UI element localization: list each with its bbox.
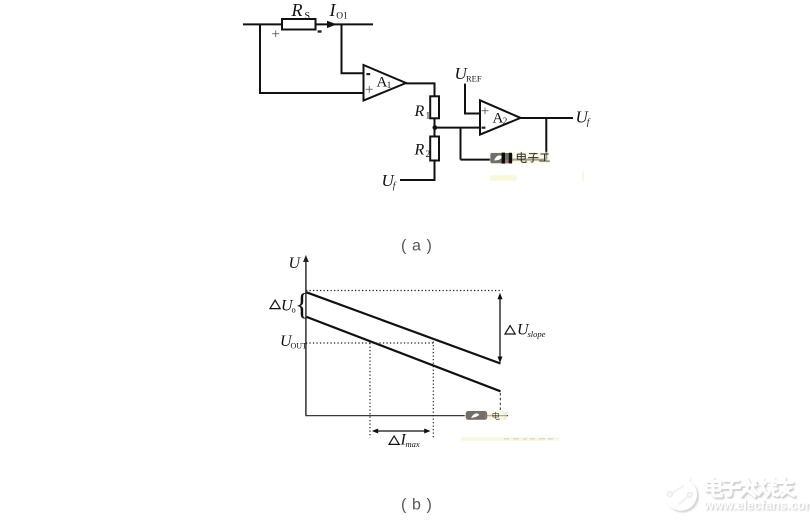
wire: A1 output to R1 top bbox=[406, 83, 435, 96]
label UREF bbox=[455, 64, 482, 84]
brand hanzi white bbox=[706, 478, 794, 496]
label - polarity bbox=[318, 30, 322, 32]
wire: feedback up to inverting input wire bbox=[460, 128, 462, 160]
logo badge dark bbox=[466, 411, 487, 420]
svg-text:2: 2 bbox=[503, 116, 508, 126]
svg-text:I: I bbox=[329, 0, 337, 20]
svg-text:U: U bbox=[289, 255, 302, 272]
arrow dImax horizontal double bbox=[375, 430, 428, 432]
ghost dashes bbox=[504, 438, 553, 440]
svg-text:R: R bbox=[414, 103, 425, 120]
wire: node to A2 inverting input bbox=[435, 127, 481, 129]
svg-text:1: 1 bbox=[387, 80, 392, 90]
badge swoosh white bbox=[471, 413, 479, 418]
label A1 bbox=[377, 75, 392, 91]
op-amp A2 triangle bbox=[480, 100, 521, 134]
label A2 bbox=[493, 111, 508, 127]
label R1 bbox=[414, 103, 431, 122]
svg-text:S: S bbox=[305, 11, 311, 22]
wire: vertical after arrow down to A1 - input bbox=[342, 24, 364, 73]
text zi ghost bbox=[502, 413, 509, 419]
svg-text:REF: REF bbox=[466, 74, 482, 84]
label RS bbox=[291, 0, 311, 22]
label IO1 bbox=[329, 0, 349, 22]
line lower bbox=[307, 317, 501, 391]
dotted top reference bbox=[306, 290, 503, 292]
logo badge dark bbox=[490, 153, 512, 163]
resistor RS body bbox=[282, 19, 316, 30]
text dian dark bbox=[493, 412, 499, 419]
label UOUT bbox=[280, 333, 307, 351]
badge bar2 black bbox=[509, 153, 512, 164]
cream highlight box bbox=[490, 152, 550, 164]
svg-text:R: R bbox=[291, 0, 303, 20]
badge red accent bbox=[505, 160, 508, 163]
resistor R1 body bbox=[430, 96, 439, 118]
label dUslope bbox=[505, 322, 546, 340]
logo leaf shadow bbox=[683, 470, 690, 484]
dotted vertical left bbox=[369, 343, 371, 438]
svg-text:+: + bbox=[481, 104, 489, 120]
node junction dot bbox=[433, 125, 438, 130]
logo disc bbox=[665, 478, 697, 510]
dashed vertical at line end bbox=[499, 393, 501, 411]
logo disc shadow bbox=[667, 480, 699, 512]
wire: feedback from output down bbox=[545, 118, 547, 160]
badge glyph white bbox=[494, 155, 502, 160]
wire: R2 bottom down and left to Uf terminal bbox=[400, 161, 435, 181]
svg-text:+: + bbox=[272, 27, 280, 43]
label Uf output bbox=[576, 108, 591, 129]
op-amp A1 triangle bbox=[364, 65, 407, 101]
wire: feedback bottom horizontal bbox=[461, 159, 547, 161]
current arrow IO1 bbox=[327, 21, 337, 28]
svg-text:o: o bbox=[292, 305, 296, 315]
wire: R1 bottom to node junction bbox=[434, 118, 436, 127]
arrow dUslope vertical double bbox=[499, 296, 501, 360]
svg-text:O1: O1 bbox=[336, 12, 348, 22]
svg-text:www.elecfans.com: www.elecfans.com bbox=[703, 499, 810, 513]
label dImax bbox=[389, 432, 420, 450]
svg-text:{: { bbox=[295, 287, 310, 321]
label Uf bottom terminal bbox=[382, 171, 397, 192]
label dU0 bbox=[270, 298, 296, 315]
svg-text:( a ): ( a ) bbox=[401, 237, 432, 254]
wire: A2 output bbox=[521, 117, 574, 119]
dotted vertical right bbox=[432, 342, 434, 438]
text dian zi gong dark bbox=[517, 152, 549, 162]
badge bar black bbox=[502, 153, 505, 164]
svg-text:1: 1 bbox=[426, 112, 431, 122]
logo leaf bbox=[680, 469, 690, 485]
svg-text:2: 2 bbox=[426, 150, 431, 160]
wire: left vertical from top rail down to A1 + input bbox=[260, 24, 364, 93]
ghost strip below graph bbox=[461, 437, 559, 440]
cream highlight box bbox=[464, 411, 507, 420]
svg-text:( b ): ( b ) bbox=[401, 497, 432, 514]
ghost tick bbox=[582, 172, 584, 182]
logo node dots bbox=[668, 492, 673, 497]
ghost strip below bbox=[490, 175, 516, 181]
wire: top rail bbox=[243, 23, 373, 25]
x axis bbox=[305, 415, 508, 417]
logo trace lines bbox=[671, 486, 690, 505]
line upper bbox=[307, 292, 501, 363]
dotted UOUT level bbox=[306, 342, 433, 344]
label A1 - input bbox=[366, 73, 370, 75]
brand hanzi shadow bbox=[707, 480, 795, 498]
badge red accent bbox=[485, 412, 486, 419]
wire: UREF vertical down to A2 + input bbox=[465, 84, 480, 114]
y axis bbox=[305, 259, 307, 416]
svg-text:slope: slope bbox=[528, 329, 546, 339]
label A2 - input bbox=[482, 127, 486, 129]
svg-text:max: max bbox=[406, 439, 420, 449]
label R2 bbox=[414, 142, 431, 161]
svg-text:R: R bbox=[414, 142, 425, 159]
svg-text:OUT: OUT bbox=[291, 342, 308, 351]
svg-text:+: + bbox=[365, 82, 373, 98]
resistor R2 body bbox=[430, 137, 439, 161]
wire: node down to R2 top bbox=[434, 128, 436, 137]
